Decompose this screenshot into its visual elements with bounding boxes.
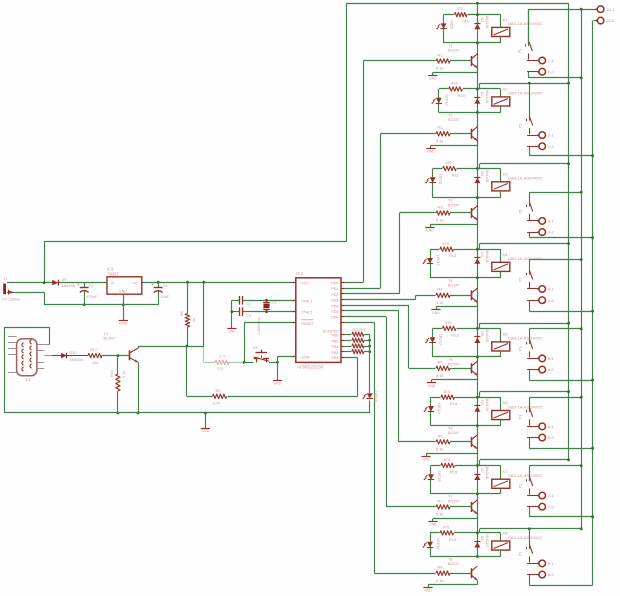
- svg-text:470: 470: [442, 525, 449, 530]
- svg-text:5.1k: 5.1k: [436, 138, 444, 143]
- svg-text:1N4148: 1N4148: [485, 16, 489, 29]
- svg-text:GND: GND: [301, 356, 310, 360]
- svg-text:XTAL2: XTAL2: [301, 310, 312, 314]
- svg-text:P1: P1: [518, 49, 522, 53]
- svg-text:XTAL1: XTAL1: [301, 299, 312, 303]
- svg-text:T2: T2: [448, 113, 452, 117]
- svg-text:R10: R10: [458, 93, 466, 98]
- svg-text:5.1k: 5.1k: [436, 578, 444, 583]
- svg-text:C4: C4: [163, 284, 168, 288]
- svg-text:X1: X1: [26, 378, 31, 382]
- svg-text:LED10: LED10: [445, 95, 449, 106]
- svg-text:7-2: 7-2: [548, 504, 555, 509]
- svg-text:T1: T1: [448, 44, 452, 48]
- svg-text:D9: D9: [62, 278, 67, 282]
- svg-text:D8: D8: [480, 536, 484, 541]
- svg-text:P1: P1: [518, 209, 522, 213]
- svg-text:4k: 4k: [192, 318, 196, 322]
- svg-text:10uF: 10uF: [161, 295, 170, 299]
- svg-text:T3: T3: [448, 199, 452, 203]
- svg-text:S1: S1: [253, 346, 258, 350]
- svg-text:IC1: IC1: [296, 271, 303, 276]
- svg-text:4.000 MHz: 4.000 MHz: [257, 317, 261, 335]
- svg-text:5.1k: 5.1k: [436, 447, 444, 452]
- svg-text:D5: D5: [480, 331, 484, 336]
- svg-text:R5: R5: [438, 360, 444, 365]
- svg-text:LED13: LED13: [438, 334, 442, 345]
- svg-text:LED12: LED12: [436, 255, 440, 266]
- svg-text:T7: T7: [448, 495, 452, 499]
- svg-text:GND: GND: [422, 457, 430, 461]
- svg-text:6-1: 6-1: [548, 424, 555, 429]
- svg-text:GND: GND: [119, 322, 127, 326]
- svg-text:10-1: 10-1: [606, 7, 615, 12]
- svg-text:470: 470: [445, 320, 452, 325]
- svg-text:D3: D3: [480, 172, 484, 177]
- svg-text:10k: 10k: [92, 361, 98, 365]
- svg-text:R4: R4: [438, 287, 444, 292]
- svg-text:470: 470: [445, 160, 452, 165]
- svg-text:6-2: 6-2: [548, 435, 555, 440]
- svg-text:3-1: 3-1: [548, 219, 555, 224]
- svg-text:GND: GND: [119, 290, 127, 294]
- svg-text:G6D-1A-ASI24VDC: G6D-1A-ASI24VDC: [508, 176, 543, 181]
- svg-text:BC547: BC547: [448, 431, 460, 435]
- svg-text:1N4148: 1N4148: [485, 170, 489, 183]
- svg-text:1N4148: 1N4148: [485, 398, 489, 411]
- svg-text:PD5: PD5: [331, 310, 338, 314]
- svg-text:T8: T8: [448, 558, 452, 562]
- svg-text:R14: R14: [450, 401, 458, 406]
- svg-text:BC547: BC547: [448, 118, 460, 122]
- svg-text:BC547: BC547: [448, 283, 460, 287]
- svg-text:PB4: PB4: [332, 356, 339, 360]
- svg-text:LED15: LED15: [437, 471, 441, 482]
- svg-text:GND: GND: [427, 149, 435, 153]
- svg-text:4.7k: 4.7k: [213, 401, 221, 406]
- svg-text:G6D-1A-ASI24VDC: G6D-1A-ASI24VDC: [508, 91, 543, 96]
- svg-text:2-2: 2-2: [548, 144, 555, 149]
- svg-text:T5: T5: [448, 358, 452, 362]
- svg-text:+: +: [151, 282, 154, 287]
- svg-text:R20: R20: [217, 367, 224, 371]
- svg-text:R7: R7: [438, 498, 444, 503]
- svg-text:G6D-1A-ASI24VDC: G6D-1A-ASI24VDC: [508, 535, 543, 540]
- svg-text:GND: GND: [432, 311, 440, 315]
- svg-text:2-1: 2-1: [548, 133, 555, 138]
- svg-text:5-2: 5-2: [548, 367, 555, 372]
- svg-text:AT90S2313P: AT90S2313P: [297, 364, 324, 369]
- svg-text:1N4148: 1N4148: [485, 466, 489, 479]
- svg-text:R2: R2: [216, 388, 222, 393]
- svg-text:R6: R6: [438, 433, 444, 438]
- svg-text:D6: D6: [480, 400, 484, 405]
- svg-text:G6D-1A-ASI24VDC: G6D-1A-ASI24VDC: [508, 473, 543, 478]
- svg-text:LED16: LED16: [374, 391, 378, 402]
- svg-text:470: 470: [451, 81, 458, 86]
- svg-text:C2: C2: [89, 284, 94, 288]
- svg-text:PD0: PD0: [331, 282, 338, 286]
- svg-text:470uF: 470uF: [87, 295, 98, 299]
- svg-text:D1: D1: [480, 18, 484, 23]
- svg-text:R12: R12: [449, 253, 457, 258]
- svg-text:PB3: PB3: [332, 351, 339, 355]
- svg-text:GND: GND: [429, 523, 437, 527]
- svg-text:1-1: 1-1: [548, 58, 555, 63]
- svg-text:PB0: PB0: [332, 334, 339, 338]
- svg-text:1N4148: 1N4148: [485, 90, 489, 103]
- svg-text:GND: GND: [274, 381, 282, 385]
- svg-text:D7: D7: [480, 468, 484, 473]
- svg-text:8-1: 8-1: [548, 561, 555, 566]
- svg-text:LED11: LED11: [439, 174, 443, 185]
- svg-text:R16: R16: [449, 537, 457, 542]
- svg-text:G6D-1A-ASI24VDC: G6D-1A-ASI24VDC: [508, 256, 543, 261]
- svg-text:R13: R13: [451, 332, 459, 337]
- svg-text:Q1: Q1: [272, 301, 277, 305]
- svg-text:G6D-1A-ASI24VDC: G6D-1A-ASI24VDC: [508, 404, 543, 409]
- svg-text:R15: R15: [450, 469, 458, 474]
- svg-text:D2: D2: [480, 92, 484, 97]
- svg-text:GND: GND: [426, 229, 434, 233]
- svg-text:GND: GND: [201, 429, 209, 433]
- svg-text:D10: D10: [70, 351, 77, 355]
- svg-text:PD3: PD3: [331, 299, 338, 303]
- svg-text:J1: J1: [3, 277, 7, 281]
- svg-text:5.1k: 5.1k: [436, 300, 444, 305]
- svg-text:470: 470: [443, 457, 450, 462]
- svg-text:D4: D4: [480, 252, 484, 257]
- svg-text:G6D-1A-ASI24VDC: G6D-1A-ASI24VDC: [508, 336, 543, 341]
- svg-text:4.7k: 4.7k: [219, 355, 226, 359]
- svg-text:1N4004: 1N4004: [70, 358, 83, 362]
- svg-text:P1: P1: [518, 552, 522, 556]
- svg-text:4-1: 4-1: [548, 287, 555, 292]
- svg-text:T9: T9: [104, 332, 108, 336]
- svg-text:PB2: PB2: [332, 345, 339, 349]
- svg-text:R11: R11: [452, 173, 460, 178]
- svg-text:5-1: 5-1: [548, 356, 555, 361]
- svg-text:GND: GND: [424, 589, 432, 593]
- svg-text:3-2: 3-2: [548, 230, 555, 235]
- svg-text:R12: R12: [360, 328, 366, 332]
- svg-text:LED16: LED16: [436, 538, 440, 549]
- svg-text:R10: R10: [353, 328, 359, 332]
- svg-text:PD2: PD2: [331, 293, 338, 297]
- svg-text:P1: P1: [518, 415, 522, 419]
- svg-text:1N4148: 1N4148: [485, 534, 489, 547]
- svg-text:R3: R3: [438, 204, 444, 209]
- svg-text:VCC: VCC: [301, 282, 309, 286]
- svg-text:R16: R16: [110, 370, 114, 377]
- svg-text:8-2: 8-2: [548, 572, 555, 577]
- svg-text:LED14: LED14: [437, 403, 441, 414]
- svg-text:470: 470: [456, 6, 463, 11]
- svg-text:1N4148: 1N4148: [485, 329, 489, 342]
- svg-text:BC547: BC547: [448, 562, 460, 566]
- svg-text:PD1: PD1: [331, 287, 338, 291]
- svg-text:1-2: 1-2: [548, 69, 555, 74]
- svg-text:BC547: BC547: [448, 49, 460, 53]
- svg-text:1N4148: 1N4148: [485, 250, 489, 263]
- svg-text:470: 470: [442, 241, 449, 246]
- svg-text:BC547: BC547: [448, 500, 460, 504]
- svg-text:PD4: PD4: [331, 304, 338, 308]
- svg-text:T6: T6: [448, 427, 452, 431]
- svg-text:5.1k: 5.1k: [436, 66, 444, 71]
- svg-text:+: +: [77, 282, 80, 287]
- svg-text:1N4936: 1N4936: [62, 284, 75, 288]
- svg-text:R1: R1: [438, 52, 444, 57]
- svg-text:P1: P1: [518, 277, 522, 281]
- svg-text:5.1k: 5.1k: [436, 373, 444, 378]
- svg-text:7805T: 7805T: [107, 271, 119, 276]
- svg-text:P1: P1: [518, 123, 522, 127]
- svg-text:R8: R8: [438, 565, 444, 570]
- svg-text:R17: R17: [90, 348, 97, 352]
- svg-text:GND: GND: [228, 330, 236, 334]
- svg-text:PD6: PD6: [331, 316, 338, 320]
- svg-text:C3: C3: [246, 313, 251, 317]
- svg-text:VO: VO: [133, 282, 138, 286]
- svg-text:BC547: BC547: [104, 336, 116, 340]
- svg-text:GND: GND: [429, 77, 437, 81]
- svg-text:PV 230ma: PV 230ma: [2, 297, 21, 301]
- svg-text:GND: GND: [428, 384, 436, 388]
- svg-text:470: 470: [443, 389, 450, 394]
- svg-text:P1: P1: [518, 347, 522, 351]
- svg-text:G6D-1A-ASI24VDC: G6D-1A-ASI24VDC: [508, 21, 543, 26]
- svg-text:7-1: 7-1: [548, 493, 555, 498]
- svg-text:10-2: 10-2: [606, 18, 615, 23]
- svg-text:5.1k: 5.1k: [436, 512, 444, 517]
- svg-text:4-2: 4-2: [548, 298, 555, 303]
- svg-text:RESET: RESET: [301, 322, 314, 326]
- svg-text:PB1: PB1: [332, 340, 339, 344]
- svg-text:5.1k: 5.1k: [122, 371, 126, 378]
- svg-text:5.1k: 5.1k: [436, 218, 444, 223]
- svg-text:LED9: LED9: [449, 20, 453, 29]
- svg-text:P1: P1: [518, 484, 522, 488]
- svg-text:C1: C1: [246, 302, 251, 306]
- svg-text:R9: R9: [463, 19, 469, 24]
- svg-text:R5: R5: [180, 311, 184, 316]
- svg-text:R2: R2: [438, 125, 444, 130]
- svg-text:BC547: BC547: [448, 203, 460, 207]
- svg-text:VI: VI: [111, 282, 114, 286]
- svg-text:T4: T4: [448, 279, 452, 283]
